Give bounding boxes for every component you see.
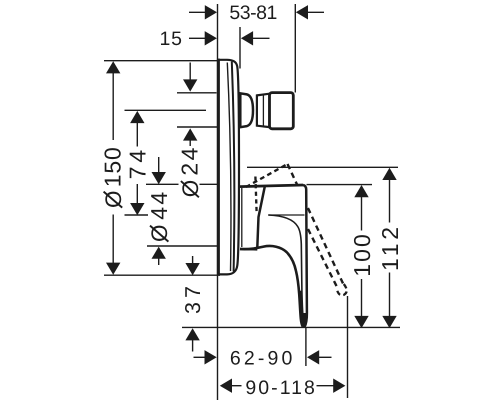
arrow 15 left — [205, 31, 217, 45]
arrow O24 top — [183, 79, 197, 91]
dimension line 62-90 tails — [194, 356, 206, 358]
arrow 74 top — [130, 111, 144, 123]
svg-text:100: 100 — [349, 234, 375, 277]
lever top edge — [240, 185, 303, 187]
dashed lever top edge rising — [246, 164, 288, 187]
arrow 53-81 right — [296, 5, 308, 19]
arrow 37 bottom — [185, 328, 199, 340]
svg-text:90-118: 90-118 — [245, 377, 315, 399]
lever handle (rest position, white fill) — [240, 185, 307, 327]
extension line pipe axis — [182, 326, 400, 328]
escutcheon plate (side view) — [218, 60, 239, 275]
svg-text:15: 15 — [160, 28, 183, 50]
dimension line 53-81 tails — [189, 11, 206, 13]
lever front edge — [257, 186, 265, 248]
dimension line O44 — [158, 157, 160, 174]
lever underside — [240, 246, 303, 327]
arrow 90-118 right — [333, 379, 345, 393]
dimension line O150 — [112, 66, 114, 140]
svg-text:37: 37 — [181, 286, 205, 314]
arrow 112 bottom — [382, 316, 396, 328]
arrow O24 bottom — [183, 128, 197, 140]
dimension line 37 — [192, 256, 194, 266]
arrow 62-90 right — [307, 350, 319, 364]
arrow 112 top — [382, 168, 396, 180]
dimension line 112 — [389, 174, 391, 223]
dashed lever front edge — [255, 177, 256, 213]
arrow 74 bottom — [130, 203, 144, 215]
lever tip dark fill — [300, 313, 307, 327]
arrow 53-81 left — [205, 5, 217, 19]
svg-text:24: 24 — [177, 147, 203, 175]
dimension line O24 — [189, 63, 191, 85]
arrow 100 top — [354, 185, 368, 197]
arrow 62-90 left — [205, 350, 217, 364]
dashed lever lower edge descending — [308, 229, 338, 288]
extension line solid-lever top — [307, 184, 373, 186]
svg-text:112: 112 — [377, 227, 403, 271]
dimension texts — [100, 2, 403, 399]
arrow 100 bottom — [354, 316, 368, 328]
dimension line 100 — [361, 192, 363, 231]
extension line plate bottom — [104, 274, 220, 276]
diverter stem inner line — [262, 95, 264, 126]
dashed lever tip cap — [337, 284, 347, 295]
dimension line 74 — [136, 117, 138, 147]
arrows — [106, 5, 397, 393]
arrow 15 right — [241, 31, 253, 45]
plate back edge (thick) — [217, 59, 220, 276]
lever arm merged band — [299, 291, 303, 319]
arrow O150 bottom — [106, 263, 120, 275]
lever right edge + tip — [303, 185, 307, 327]
extension line dashed-lever top — [247, 166, 398, 168]
lever inner fillet — [268, 215, 303, 318]
diverter stem — [257, 94, 270, 127]
extension line knob axis — [125, 109, 207, 111]
arrow O150 top — [106, 61, 120, 73]
extension line lever axis — [125, 214, 149, 216]
svg-text:74: 74 — [125, 150, 151, 180]
hub bottom edge — [240, 248, 257, 251]
extension line knob bottom — [177, 126, 218, 128]
dimension line 15 tails — [189, 37, 205, 39]
svg-text:62-90: 62-90 — [230, 348, 293, 370]
extension line dashed lever tip — [347, 296, 349, 398]
extension line plate top — [104, 60, 220, 62]
hub joint line — [241, 188, 243, 247]
plate-front extension line (15 dim) — [239, 27, 241, 69]
wall extension line — [217, 4, 219, 400]
diverter knob — [270, 93, 294, 129]
extension line hub top — [146, 183, 179, 185]
arrow 37 top — [185, 263, 199, 275]
diverter bell — [240, 93, 253, 127]
extension line knob top — [177, 92, 217, 94]
dashed lever upper edge descending — [288, 164, 344, 285]
lever parting line — [268, 214, 304, 216]
dimension line 90-118 tails — [231, 385, 241, 387]
plate sleeve edge — [232, 62, 235, 272]
extension line hub bottom — [147, 245, 218, 247]
arrow O44 bottom — [152, 247, 166, 259]
dashed lever (raised position) — [288, 164, 344, 288]
svg-text:53-81: 53-81 — [229, 2, 277, 24]
svg-text:44: 44 — [146, 192, 172, 220]
plate rim line — [227, 63, 231, 272]
knob-tip extension line (53-81 dim) — [294, 4, 296, 93]
extension line solid lever tip — [305, 327, 307, 366]
arrow 90-118 left — [220, 379, 232, 393]
svg-text:150: 150 — [100, 147, 126, 187]
arrow O44 top — [152, 172, 166, 184]
